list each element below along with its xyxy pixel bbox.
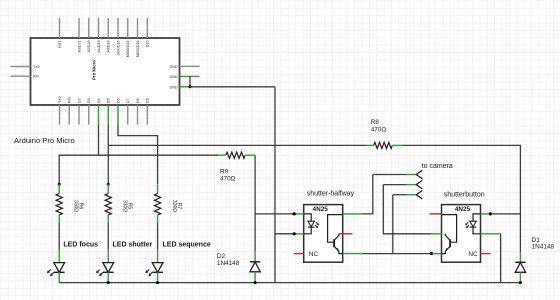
LED focus anode stub — [58, 250, 60, 263]
wire opto1 base up to camera pin 1 — [363, 175, 373, 214]
node R6 top junction — [58, 183, 61, 186]
node R5 top junction — [107, 183, 110, 186]
wire D6 pin elbow to R7 — [118, 125, 158, 184]
svg-text:D5: D5 — [107, 98, 111, 103]
camera connector pin 2 arrow — [416, 180, 422, 188]
svg-text:MOSI/D16: MOSI/D16 — [136, 41, 140, 58]
diode D1 cathode bar — [515, 261, 525, 263]
svg-text:NC: NC — [468, 251, 478, 258]
resistor R7 top stub — [157, 184, 159, 193]
resistor R8 zigzag — [374, 142, 393, 148]
wire GND pin2 jog down to pin3 — [189, 76, 191, 86]
opto U3 shutterbutton body — [442, 205, 481, 263]
R7 value label — [171, 200, 182, 212]
svg-text:A3/D21: A3/D21 — [77, 41, 81, 53]
svg-text:shutterbutton: shutterbutton — [444, 191, 485, 198]
LED focus light arrows — [48, 270, 51, 273]
wire R9 right down and to opto1 anode — [255, 155, 294, 214]
svg-text:4N25: 4N25 — [455, 206, 471, 213]
svg-text:D10: D10 — [146, 40, 150, 47]
LED shutter cathode stub — [107, 272, 109, 282]
R6 value label — [73, 200, 84, 212]
svg-text:GND: GND — [170, 85, 178, 89]
diode D1 bottom stub — [519, 272, 521, 282]
LED sequence anode stub — [157, 250, 159, 263]
opto U3 emitter stub (bottom left) — [431, 253, 441, 255]
opto U2 shutter-halfway body — [304, 205, 343, 263]
wire U3 cathode down to rail — [500, 234, 502, 283]
wire R5 to LED — [107, 223, 109, 250]
wire U3 anode to D1 column — [490, 213, 520, 215]
svg-text:RXI: RXI — [33, 75, 39, 79]
opto U2 collector stub red (mid right) — [339, 233, 353, 235]
wire camera pin 3 down tee to emitter net — [392, 195, 394, 254]
resistor R8 right stub — [392, 144, 402, 146]
node U3 anode junction — [489, 212, 492, 215]
opto U3 cathode stub (mid right) — [481, 233, 501, 235]
node rail junction LED sequence — [156, 281, 159, 284]
opto U3 NC stub red (bottom right) — [481, 253, 491, 255]
camera connector pin 1 arrow — [416, 170, 422, 178]
LED sequence cathode bar — [152, 271, 163, 273]
resistor R6 top stub — [58, 184, 60, 193]
U1 right pins GND GND GND — [180, 65, 200, 67]
camera connector pin 1 wire — [373, 174, 406, 176]
svg-text:LED focus: LED focus — [63, 242, 98, 249]
svg-text:A2/D20: A2/D20 — [87, 41, 91, 53]
LED shutter anode stub — [107, 250, 109, 263]
LED shutter light arrows — [97, 270, 100, 273]
opto U2 emitter stub (bottom right) — [343, 253, 363, 255]
resistor R7 zigzag — [155, 194, 161, 216]
node rail junction D2 — [254, 281, 257, 284]
opto U2 base stub (top right) — [343, 213, 363, 215]
node U2 cathode — [293, 232, 296, 235]
svg-text:TX0: TX0 — [33, 65, 40, 69]
resistor R5 zigzag — [105, 194, 111, 216]
U1 left pins — [11, 67, 31, 77]
U1 bottom pins — [60, 105, 148, 125]
svg-text:RST: RST — [58, 40, 62, 48]
svg-text:MISO/D14: MISO/D14 — [126, 41, 130, 58]
node rail junction LED shutter — [107, 281, 110, 284]
svg-text:330Ω: 330Ω — [171, 200, 177, 212]
diode D2 bottom stub — [254, 272, 256, 283]
opto U3 shutterbutton phototransistor — [442, 215, 457, 243]
svg-text:1N4148: 1N4148 — [532, 244, 555, 251]
wire long net to R8 — [108, 144, 366, 146]
svg-text:RXI: RXI — [68, 97, 72, 103]
svg-text:to camera: to camera — [422, 163, 453, 170]
svg-text:SCK/D15: SCK/D15 — [116, 41, 120, 56]
wire R8 right to far right, down to D1 column — [402, 145, 520, 252]
wire W1: LED focus / R9 net — [59, 155, 218, 184]
svg-text:330Ω: 330Ω — [122, 200, 128, 212]
diode D2 triangle — [250, 262, 260, 272]
camera connector pin 2 wire — [383, 184, 406, 186]
LED sequence light arrows — [147, 270, 150, 273]
Arduino Pro Micro U1 body — [31, 38, 180, 105]
svg-text:470Ω: 470Ω — [220, 176, 236, 183]
resistor R5 bottom stub — [107, 215, 109, 223]
svg-text:D2: D2 — [77, 98, 81, 103]
svg-text:Arduino Pro Micro: Arduino Pro Micro — [14, 136, 75, 145]
opto U2 pin C stub — [294, 233, 304, 235]
wire down to D2 — [254, 214, 256, 252]
svg-text:R8: R8 — [371, 119, 380, 126]
svg-text:330Ω: 330Ω — [73, 200, 79, 212]
LED focus cathode stub — [58, 272, 60, 282]
R5 value label — [122, 200, 133, 212]
camera connector pin 3 wire — [393, 194, 406, 196]
diode D1 top stub — [519, 252, 521, 262]
wire opto1 cathode to GND vertical — [275, 233, 294, 235]
wire R6 to LED — [58, 223, 60, 250]
svg-text:shutter-halfway: shutter-halfway — [307, 190, 355, 197]
resistor R8 left stub — [366, 144, 374, 146]
opto U2 shutter-halfway phototransistor — [328, 215, 343, 243]
opto U3 anode stub (top right) — [481, 213, 491, 215]
svg-text:1N4148: 1N4148 — [217, 260, 240, 267]
svg-text:470Ω: 470Ω — [371, 127, 387, 134]
wire opto1 emitter to opto2 emitter — [363, 253, 432, 255]
svg-text:A0/D18: A0/D18 — [107, 41, 111, 53]
opto U2 shutter-halfway internal LED — [304, 214, 312, 234]
svg-text:TX0: TX0 — [58, 96, 62, 103]
resistor R9 right stub — [245, 154, 255, 156]
wire R7 to LED — [157, 223, 159, 250]
wire GND vertical x275 down to rail — [274, 87, 276, 283]
wire camera pin 2 down to opto2 collector — [383, 185, 431, 234]
node rail junction D1 — [519, 281, 522, 284]
opto U3 base stub red (top left) — [430, 213, 442, 215]
wire GND horizontal to x275 — [190, 86, 275, 88]
LED shutter triangle — [103, 263, 114, 273]
U1 top pins — [60, 18, 148, 38]
wire D4 pin down to W1 — [98, 125, 100, 156]
resistor R9 left stub — [218, 154, 226, 156]
camera connector pin 3 arrow — [416, 191, 422, 199]
svg-text:GND: GND — [170, 75, 178, 79]
opto U3 shutterbutton internal LED — [473, 214, 481, 234]
svg-text:D4: D4 — [97, 98, 101, 103]
node U2 anode — [293, 212, 296, 215]
svg-text:D7: D7 — [126, 98, 130, 103]
resistor R5 top stub — [107, 184, 109, 193]
node U3 emitter junction — [430, 252, 433, 255]
LED sequence triangle — [152, 263, 163, 273]
svg-text:NC: NC — [309, 251, 319, 258]
node GND junction at chip — [189, 85, 192, 88]
svg-text:D3: D3 — [87, 98, 91, 103]
LED focus triangle — [54, 263, 65, 273]
diode D1 triangle — [515, 263, 525, 273]
resistor R6 bottom stub — [58, 215, 60, 223]
svg-text:LED sequence: LED sequence — [163, 242, 211, 249]
svg-text:LED shutter: LED shutter — [113, 242, 153, 249]
svg-text:D8: D8 — [136, 98, 140, 103]
opto U2 pin NC stub red — [294, 253, 304, 255]
svg-text:4N25: 4N25 — [313, 206, 329, 213]
LED sequence cathode stub — [157, 272, 159, 282]
opto U3 collector stub (mid left) — [431, 233, 441, 235]
svg-text:D6: D6 — [116, 98, 120, 103]
svg-text:A1/D19: A1/D19 — [97, 41, 101, 53]
LED shutter cathode bar — [103, 271, 114, 273]
wire GND rail — [59, 282, 520, 284]
opto U2 pin A stub — [294, 213, 304, 215]
wire D5 pin down to R5, tee to long wire — [107, 125, 109, 185]
svg-text:D9: D9 — [146, 98, 150, 103]
svg-text:GND: GND — [170, 65, 178, 69]
resistor R7 bottom stub — [157, 215, 159, 223]
resistor R6 zigzag — [56, 194, 62, 216]
diode D2 top stub — [254, 252, 256, 262]
diode D2 cathode bar — [250, 261, 260, 263]
resistor R9 zigzag — [226, 152, 245, 158]
svg-text:R9: R9 — [220, 169, 229, 176]
svg-text:Pro Micro: Pro Micro — [92, 60, 97, 80]
LED focus cathode bar — [54, 271, 65, 273]
